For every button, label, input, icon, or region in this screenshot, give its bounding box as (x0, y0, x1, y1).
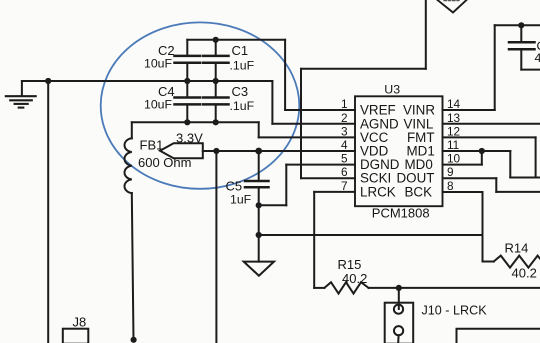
resistor R15 (324, 282, 368, 293)
svg-text:VINR: VINR (403, 103, 435, 118)
svg-text:3: 3 (341, 124, 348, 138)
wire: stub to ground triangle (258, 235, 260, 262)
node: junction top right (518, 22, 524, 28)
svg-text:10uF: 10uF (144, 57, 173, 71)
svg-text:40.2: 40.2 (512, 266, 537, 281)
node: C5 bottom junction (256, 202, 262, 208)
connector J8 (bottom left, cut off) (63, 329, 89, 343)
wire: DOUT exit to right edge (496, 191, 540, 193)
off-page diamond (top, cut off) (438, 0, 467, 13)
node: C3 to bottom rail (213, 119, 219, 125)
wire: vertical from mid rail to pin 2 (271, 81, 273, 124)
node: C2 to mid rail (184, 78, 190, 84)
wire: U3 pin 12 horizontal (443, 136, 536, 138)
svg-text:FB1: FB1 (140, 138, 164, 153)
wire: VDD line from 3.3V flag to U3 pin 4 (203, 150, 355, 152)
svg-text:J8: J8 (73, 315, 87, 330)
svg-text:8: 8 (447, 179, 454, 193)
svg-text:600 Ohm: 600 Ohm (138, 155, 191, 170)
wire: U3 pin 6 horizontal (SCKI) (301, 177, 355, 179)
connector J10 (385, 303, 414, 343)
capacitor C3 (203, 81, 229, 122)
svg-text:7: 7 (341, 179, 348, 193)
wire: vertical from top rail to pin 1 (284, 40, 286, 110)
node: junction MD1/MD0 (479, 148, 485, 154)
IC U3 pin names (360, 103, 435, 200)
ground (earth symbol, far left) (6, 81, 36, 108)
wire: top rail (VREF net) y=39.8 (187, 39, 285, 41)
wire: R14 left lead (483, 261, 494, 263)
wire: VCC jog down to pin 3 (258, 122, 260, 137)
svg-text:U3: U3 (384, 83, 400, 97)
svg-text:R15: R15 (338, 257, 362, 272)
svg-text:J10 - LRCK: J10 - LRCK (422, 304, 488, 318)
svg-text:10uF: 10uF (144, 98, 173, 112)
svg-text:13: 13 (447, 111, 461, 125)
svg-text:11: 11 (447, 138, 459, 152)
wire: U3 pin 3 horizontal (259, 136, 355, 138)
svg-text:C3: C3 (232, 84, 249, 99)
wire: U3 pin 13 horizontal to right edge (443, 123, 540, 125)
capacitor (top right, cut off) (509, 25, 540, 69)
wire: ground line under U3 (259, 234, 483, 236)
capacitor C4 (175, 81, 201, 122)
wire: U3 pin 10 horizontal (MD0) (443, 164, 482, 166)
wire: LRCK vertical down to R15 (313, 192, 315, 288)
wire: U3 pin 7 horizontal (LRCK) (314, 191, 355, 193)
resistor R14 (494, 256, 540, 268)
ground (triangle below C5) (244, 262, 274, 276)
svg-text:14: 14 (447, 97, 461, 111)
wire: LRCK net horizontal y=287.9 left part (314, 287, 324, 289)
node: C4 to bottom rail (184, 119, 190, 125)
svg-text:5: 5 (341, 152, 348, 166)
svg-text:3.3V: 3.3V (176, 131, 203, 146)
wire: U3 pin 1 horizontal (285, 109, 355, 111)
wire: U3 pin 5 horizontal (286, 164, 355, 166)
wire: U3 pin 8 horizontal (BCK) (443, 191, 483, 193)
node: junction of C5 on VDD line (255, 148, 262, 155)
cut-off text remnant inside diamond (444, 0, 459, 2)
svg-text:C5: C5 (226, 179, 243, 194)
svg-text:40.2: 40.2 (342, 271, 367, 286)
wire: bottom rail (VCC net) y=122.3 (132, 121, 259, 123)
svg-text:9: 9 (447, 165, 454, 179)
node: FB1 bottom dot at image bottom (131, 337, 137, 343)
power flag 3.3V (pentagon pointing left) (160, 143, 203, 158)
svg-text:.1uF: .1uF (230, 99, 255, 113)
wire: BCK drop to R14 (482, 192, 484, 262)
wire: tie MD1 to MD0 (481, 151, 483, 165)
svg-text:C1: C1 (232, 43, 249, 58)
wire: SCKI top horizontal (301, 68, 426, 70)
svg-text:10: 10 (447, 152, 461, 166)
node: junction above J10 (396, 285, 402, 291)
svg-text:LRCK: LRCK (360, 185, 396, 200)
wire: vertical from VDD junction to bottom edge (215, 151, 217, 343)
wire: pin 12 drop (535, 137, 537, 177)
pin numbers (341, 97, 461, 193)
node: C1 to mid rail (213, 78, 219, 84)
wire: vertical from pin 5 down to C5 bottom link (285, 165, 287, 206)
wire: SCKI riser to top edge (425, 0, 427, 69)
node: junction on VDD line (213, 148, 219, 154)
wire: pin 14 riser (494, 25, 496, 110)
svg-text:DOUT: DOUT (397, 171, 435, 186)
ferrite bead FB1 (124, 122, 133, 339)
svg-text:BCK: BCK (405, 185, 433, 200)
svg-text:4: 4 (341, 138, 348, 152)
capacitor C1 (203, 40, 229, 81)
wire: U3 pin 11 horizontal (MD1) (443, 150, 511, 152)
node: junction on mid rail (45, 78, 51, 84)
svg-text:SCKI: SCKI (360, 171, 391, 186)
wire: MD exit to right edge (510, 177, 540, 179)
wire: mid ground rail y=81 (22, 80, 273, 82)
wire: U3 pin 14 horizontal (443, 109, 495, 111)
capacitor C2 (175, 40, 201, 81)
svg-text:4: 4 (535, 51, 540, 65)
svg-text:VREF: VREF (360, 103, 396, 118)
node: ground line junction (256, 232, 262, 238)
svg-text:6: 6 (341, 165, 348, 179)
wire: DOUT jog down (495, 178, 497, 192)
capacitor C5 (245, 181, 269, 235)
wire: C5 top lead from VDD junction (258, 151, 260, 181)
wire: U3 pin 2 horizontal (272, 123, 355, 125)
svg-text:PCM1808: PCM1808 (372, 205, 430, 220)
wire: left vertical bus from junction to bottom edge (47, 81, 49, 343)
wire: SCKI vertical (300, 69, 302, 178)
wire: C5 bottom link horizontal (259, 204, 287, 206)
node: junction on top rail (213, 37, 219, 43)
svg-text:12: 12 (447, 124, 460, 138)
connector box bottom right (cut off) (457, 329, 540, 343)
wire: MD drop (509, 151, 511, 178)
wire: LRCK net horizontal to right edge (369, 287, 540, 289)
svg-text:1uF: 1uF (230, 193, 252, 207)
svg-text:R14: R14 (505, 241, 529, 256)
IC U3 box (355, 96, 443, 206)
svg-text:1: 1 (341, 97, 348, 111)
wire: U3 pin 9 horizontal (DOUT) (443, 177, 497, 179)
wire: drop into J10 (398, 288, 400, 309)
blue highlight ellipse (101, 22, 300, 188)
wire: top right horizontal (495, 24, 540, 26)
svg-text:2: 2 (341, 111, 348, 125)
svg-text:.1uF: .1uF (230, 59, 255, 73)
